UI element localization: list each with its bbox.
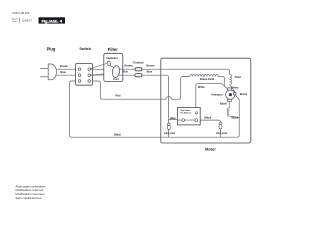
wire into capacitor inside box: [104, 63, 108, 65]
svg-text:Brown: Brown: [146, 64, 154, 68]
white wire junction to board and armature: [196, 84, 228, 112]
wire black from switch down and along bottom to motor: [70, 81, 240, 137]
svg-text:Issue: Issue: [12, 21, 18, 23]
svg-text:Core: Core: [113, 78, 119, 81]
svg-text:Blue: Blue: [170, 116, 176, 120]
filter box: [104, 53, 123, 81]
brush bottom: [228, 99, 232, 101]
svg-text:Switch: Switch: [79, 47, 92, 51]
svg-text:Modifications réservées: Modifications réservées: [16, 192, 46, 196]
svg-text:Brush: Brush: [240, 92, 248, 96]
wire switch to capacitor diagonal: [91, 63, 108, 69]
svg-text:White: White: [198, 85, 206, 89]
svg-text:Black: Black: [204, 115, 211, 119]
board pin circle top: [195, 112, 197, 114]
svg-text:Terminal: Terminal: [133, 61, 144, 65]
board pin circle right: [195, 119, 198, 122]
switch pin 3 (bottom left): [78, 80, 81, 83]
svg-text:Stand: Stand: [12, 18, 18, 21]
svg-text:10-03-17: 10-03-17: [22, 20, 33, 23]
wire blue core to terminal: [119, 74, 135, 76]
svg-text:Field: Field: [235, 75, 241, 79]
terminal lozenge 1: [135, 68, 142, 71]
armature circle: [226, 90, 235, 99]
svg-text:Salvo modificaciones: Salvo modificaciones: [16, 196, 42, 200]
wire joint left symbol: [167, 123, 170, 126]
plug body: [48, 64, 56, 80]
wire bottom brush to lower coil: [227, 102, 239, 118]
brush right: [234, 93, 236, 96]
wire blue terminal into motor down: [142, 75, 169, 137]
wire switch row1 to core: [90, 68, 113, 70]
svg-text:wire joint: wire joint: [216, 132, 227, 135]
brake field coil: [190, 74, 225, 86]
svg-text:Plug: Plug: [47, 46, 56, 51]
svg-text:Red: Red: [116, 94, 121, 98]
svg-text:Capacitor: Capacitor: [106, 56, 118, 60]
armature commutator: [229, 93, 232, 96]
switch pin 4 (top right): [88, 68, 91, 71]
switch pin 1 (top left): [78, 68, 81, 71]
soft start PC board box: [178, 108, 201, 125]
wire blue branch to PC board: [169, 119, 184, 121]
svg-text:Fig./Abb. 4: Fig./Abb. 4: [41, 19, 62, 24]
wire joint right symbol: [219, 122, 222, 125]
svg-text:Blue: Blue: [147, 69, 153, 73]
svg-text:Black: Black: [220, 102, 227, 106]
plug prong upper: [40, 68, 48, 70]
svg-text:Motor: Motor: [205, 146, 216, 151]
svg-text:Brown: Brown: [124, 64, 132, 68]
switch pin 5 (mid right): [88, 74, 91, 77]
svg-text:wire joint: wire joint: [164, 132, 175, 135]
switch pin 2 (mid left): [78, 74, 81, 77]
brake field slash: [203, 74, 206, 77]
field coil right side: [230, 74, 236, 92]
terminal lozenge 2: [135, 74, 142, 77]
svg-text:Blue: Blue: [122, 69, 128, 73]
svg-text:White: White: [231, 86, 239, 90]
capacitor symbol: [107, 61, 110, 66]
brush top: [228, 88, 232, 90]
wire red from switch to brake field: [90, 77, 189, 100]
svg-text:Modifications reserved: Modifications reserved: [16, 188, 44, 192]
wire brown core to terminal: [119, 68, 135, 70]
svg-text:Änderungen vorbehalten: Änderungen vorbehalten: [16, 184, 47, 188]
motor box: [161, 58, 251, 143]
svg-text:Brake-Field: Brake-Field: [200, 77, 215, 81]
wire switch row2 to core rising: [90, 73, 113, 75]
switch pin 6 (bottom right): [88, 80, 91, 83]
svg-text:Blue: Blue: [60, 70, 66, 74]
svg-text:PC Board: PC Board: [181, 113, 192, 115]
wire brown plug to switch: [53, 68, 76, 70]
svg-text:Black: Black: [231, 116, 238, 120]
capacitor stem: [109, 66, 114, 68]
board pin circle left: [182, 119, 185, 122]
svg-text:Brown: Brown: [60, 64, 68, 68]
Fig./Abb. 4 black box: [39, 17, 66, 23]
core ellipse: [112, 65, 121, 78]
header bracket: [19, 18, 21, 24]
wire blue plug to switch: [53, 74, 76, 76]
svg-text:Armature: Armature: [211, 93, 223, 97]
svg-text:Filter: Filter: [108, 47, 118, 52]
svg-text:3 601 L30 400: 3 601 L30 400: [12, 11, 30, 15]
board wire between pins: [178, 119, 197, 121]
wire brown terminal to field coil: [142, 69, 230, 74]
switch box: [76, 64, 93, 86]
plug prong lower: [40, 76, 48, 78]
svg-text:Black: Black: [114, 132, 121, 136]
wire black from PC board to right joint: [196, 120, 220, 137]
wire switch row2 horizontal: [90, 74, 113, 76]
